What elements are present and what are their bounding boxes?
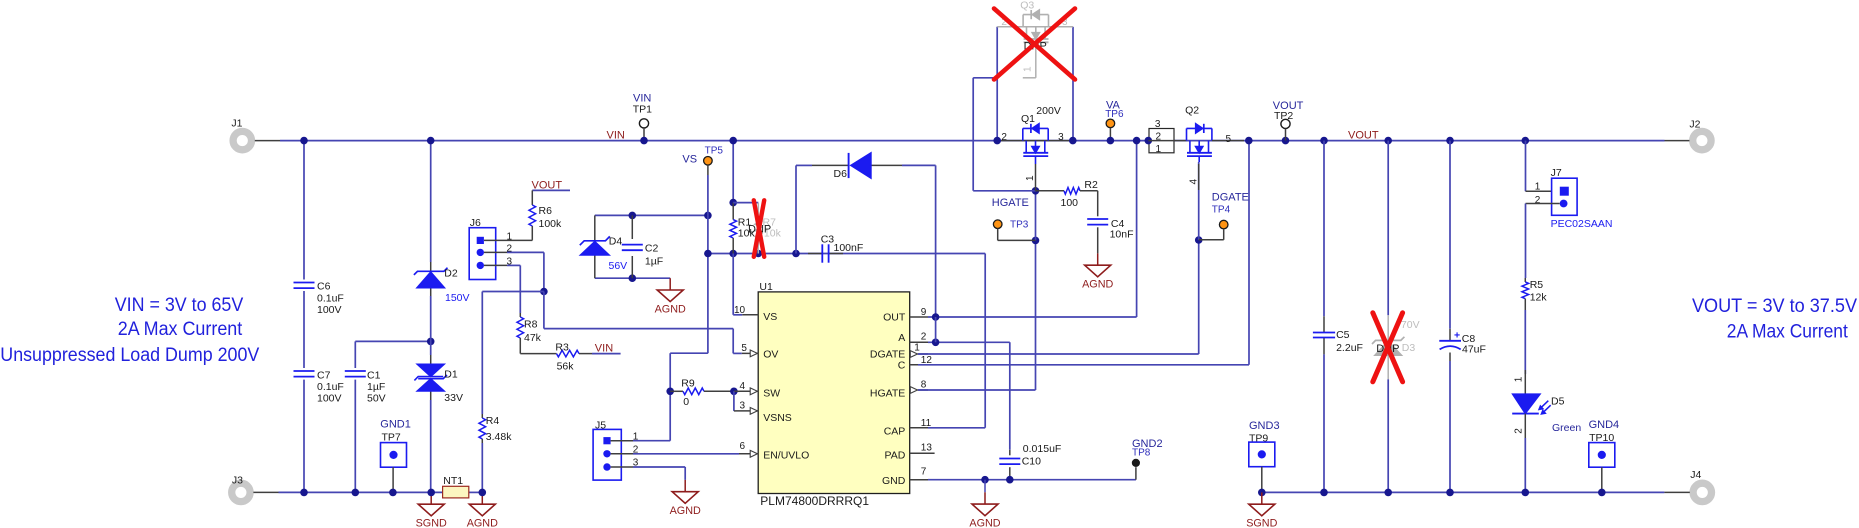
test point TP3 [992, 197, 1036, 240]
svg-text:J1: J1 [231, 118, 242, 130]
connector J2 [1665, 119, 1712, 150]
U1 pin 3 VSNS stub [736, 400, 758, 414]
svg-text:PEC02SAAN: PEC02SAAN [1551, 218, 1613, 230]
capacitor C7 [294, 369, 344, 404]
U1 pin 6 EN/UVLO stub [739, 441, 758, 457]
svg-text:1: 1 [914, 343, 920, 354]
U1 pin 5 OV stub [741, 343, 758, 357]
capacitor C10 [999, 443, 1061, 480]
svg-text:2: 2 [921, 332, 927, 343]
wire C net [918, 141, 1249, 365]
svg-text:13: 13 [921, 442, 933, 453]
ground AGND bottom-left [467, 492, 498, 528]
svg-text:SW: SW [763, 387, 780, 399]
resistor R7 DNP [755, 203, 782, 254]
svg-text:4: 4 [740, 381, 746, 392]
capacitor C6 [294, 281, 344, 316]
wire D6 left leg [795, 165, 797, 253]
wire R1 top from rail [729, 141, 737, 207]
svg-text:100V: 100V [317, 393, 342, 405]
svg-text:4: 4 [1189, 179, 1200, 185]
annotation VOUT spec line 2 [1727, 321, 1849, 342]
wire bus to VS pin [733, 254, 742, 315]
svg-text:GND1: GND1 [380, 418, 411, 430]
junction dots VOUT rail [1245, 137, 1529, 145]
svg-text:100nF: 100nF [834, 242, 864, 254]
resistor R6 [529, 190, 562, 240]
svg-text:A: A [898, 332, 905, 344]
wire VOUT to J7 pin1 [1526, 141, 1561, 192]
svg-text:R2: R2 [1084, 179, 1098, 191]
wire CAP net riser [928, 254, 985, 428]
transistor Q2 [1185, 105, 1244, 162]
svg-text:AGND: AGND [655, 303, 686, 315]
svg-text:EN/UVLO: EN/UVLO [763, 449, 809, 461]
test point TP7 GND1 [380, 418, 411, 492]
svg-text:7: 7 [921, 466, 927, 477]
connector J6 [469, 217, 512, 279]
label DNP Q3 [1024, 40, 1047, 52]
svg-text:R5: R5 [1530, 279, 1544, 291]
U1 pin 7 GND stub [910, 466, 928, 479]
capacitor C5 [1313, 316, 1363, 354]
svg-text:0.1uF: 0.1uF [317, 381, 344, 393]
diode D6 [796, 153, 936, 180]
wire D2-D1 column [430, 141, 432, 493]
capacitor C2 [622, 215, 663, 278]
red X over R7 [754, 200, 764, 256]
svg-text:3.48k: 3.48k [486, 431, 512, 443]
svg-text:NT1: NT1 [443, 475, 463, 487]
wire GND net [928, 467, 1136, 483]
svg-text:47uF: 47uF [1462, 344, 1486, 356]
svg-text:OV: OV [763, 348, 778, 360]
annotation VIN spec line 2 [118, 319, 243, 340]
svg-text:2A Max Current: 2A Max Current [1727, 321, 1849, 342]
svg-text:D4: D4 [609, 236, 623, 248]
connector J4 [1664, 469, 1711, 502]
red X over Q3 [994, 9, 1075, 80]
svg-text:AGND: AGND [467, 518, 498, 528]
U1 pin 10 VS stub [734, 305, 758, 316]
svg-text:C10: C10 [1022, 456, 1041, 468]
net tie NT1 [443, 475, 469, 498]
svg-text:1: 1 [1535, 182, 1541, 193]
svg-text:2: 2 [1535, 195, 1541, 206]
wire VIN-VOUT top rail [280, 140, 1665, 142]
svg-text:100k: 100k [539, 218, 563, 230]
ground SGND under TP9 [1246, 492, 1277, 528]
red X over D3 [1373, 313, 1403, 382]
svg-text:100: 100 [1061, 197, 1079, 209]
wire DGATE net [918, 162, 1202, 354]
svg-text:C1: C1 [367, 369, 381, 381]
svg-text:12k: 12k [1530, 291, 1548, 303]
svg-text:150V: 150V [445, 292, 470, 304]
test point TP8 GND2 [1132, 438, 1163, 467]
ground AGND under U1 [969, 480, 1000, 528]
ground SGND bottom-left [416, 492, 447, 528]
wire J6 pin2 net [507, 252, 548, 295]
svg-text:C6: C6 [317, 281, 331, 293]
wire R5 to D5 [1514, 310, 1526, 382]
svg-text:VIN: VIN [595, 343, 613, 355]
svg-text:TP4: TP4 [1212, 205, 1231, 216]
connector J5 [593, 419, 639, 480]
op-amp U1 body [758, 281, 910, 508]
wire R9 to VSNS [734, 391, 736, 411]
svg-text:1: 1 [1156, 144, 1162, 155]
svg-text:VSNS: VSNS [763, 412, 792, 424]
svg-text:1µF: 1µF [645, 255, 663, 267]
annotation VIN spec line 1 [115, 295, 244, 316]
svg-text:SGND: SGND [416, 518, 447, 528]
svg-text:3: 3 [740, 400, 746, 411]
svg-text:200V: 200V [1036, 105, 1061, 117]
svg-text:Q1: Q1 [1021, 113, 1035, 125]
wire D4-C2 bottom [595, 274, 670, 282]
svg-text:50V: 50V [367, 393, 386, 405]
svg-text:11: 11 [921, 418, 932, 429]
wire J5 pin1 to R9 [633, 391, 670, 440]
test point TP10 GND4 [1589, 419, 1620, 492]
U1 pin 4 SW stub [740, 381, 759, 395]
svg-text:10: 10 [734, 305, 746, 316]
svg-text:5: 5 [1226, 134, 1232, 145]
svg-text:1µF: 1µF [367, 381, 385, 393]
wire D3 column [1387, 141, 1389, 493]
svg-text:3: 3 [1155, 119, 1161, 130]
wire bottom-right ground rail [1262, 491, 1665, 493]
svg-text:PAD: PAD [884, 449, 905, 461]
wire HGATE net [918, 187, 1039, 390]
wire A net to C10 [928, 317, 1010, 450]
svg-text:70V: 70V [1401, 319, 1420, 331]
svg-text:VOUT: VOUT [1348, 129, 1379, 141]
svg-text:C2: C2 [645, 243, 659, 255]
wire C5 column [1323, 141, 1325, 493]
wire OUT net [928, 141, 1137, 321]
svg-text:VIN = 3V to 65V: VIN = 3V to 65V [115, 295, 244, 316]
wire pin2 net to OV pin [544, 292, 742, 354]
wire pin2 net to R4 [482, 291, 544, 293]
svg-text:TP6: TP6 [1105, 109, 1124, 120]
svg-text:J4: J4 [1690, 469, 1701, 481]
svg-text:2A Max Current: 2A Max Current [118, 319, 243, 340]
svg-text:6: 6 [740, 441, 746, 452]
svg-text:J2: J2 [1689, 119, 1700, 131]
svg-text:TP3: TP3 [1010, 220, 1029, 231]
transistor Q3 DNP [997, 0, 1073, 78]
svg-text:AGND: AGND [969, 518, 1000, 528]
svg-text:D6: D6 [834, 168, 848, 180]
capacitor C8 [1439, 141, 1486, 493]
connector J3 [232, 475, 279, 502]
test point TP6 VA [1105, 100, 1124, 145]
svg-text:J3: J3 [232, 475, 243, 487]
U1 pin 13 PAD stub [910, 442, 935, 453]
label DNP R7 [748, 223, 771, 235]
svg-text:J7: J7 [1551, 167, 1562, 179]
wire HGATE to Q3 [973, 78, 1035, 191]
junction dots bottom-left [300, 489, 486, 497]
svg-text:J5: J5 [595, 419, 606, 431]
ground AGND under C2 [655, 278, 686, 315]
net label VIN [607, 130, 625, 142]
svg-text:GND: GND [882, 475, 906, 487]
zener D4 [580, 215, 627, 278]
svg-text:CAP: CAP [884, 426, 906, 438]
svg-text:D1: D1 [444, 368, 458, 380]
svg-text:J6: J6 [470, 217, 481, 229]
wire J5 pin2 EN/UVLO [633, 453, 739, 455]
svg-text:Q3: Q3 [1020, 0, 1034, 12]
svg-text:HGATE: HGATE [992, 197, 1029, 209]
svg-text:TP5: TP5 [705, 145, 724, 156]
svg-text:2: 2 [1001, 132, 1007, 143]
svg-text:0: 0 [683, 396, 689, 408]
wire J6 pin1 to R6 [507, 239, 532, 241]
wire VS to R9 [670, 353, 708, 391]
svg-text:TP1: TP1 [633, 104, 652, 116]
svg-text:R3: R3 [555, 341, 569, 353]
Q2 gate lead label 4 [1189, 164, 1200, 190]
svg-text:100V: 100V [317, 304, 342, 316]
wire J5 pin3 to AGND [633, 467, 685, 480]
svg-text:56V: 56V [609, 260, 628, 272]
svg-text:0.1uF: 0.1uF [317, 293, 344, 305]
svg-text:D5: D5 [1551, 395, 1565, 407]
connector J7 [1535, 167, 1613, 230]
svg-text:U1: U1 [759, 281, 773, 293]
svg-text:3: 3 [1058, 132, 1064, 143]
svg-text:10nF: 10nF [1110, 229, 1134, 241]
svg-text:2: 2 [1514, 428, 1525, 434]
svg-text:47k: 47k [524, 332, 542, 344]
capacitor C4 [1087, 218, 1133, 253]
svg-text:33V: 33V [444, 392, 463, 404]
test point TP5 VS [682, 145, 723, 165]
LED D5 [1512, 370, 1581, 492]
wire R1 to R7 [733, 202, 758, 204]
svg-text:PLM74800DRRRQ1: PLM74800DRRRQ1 [760, 494, 869, 508]
svg-text:D3: D3 [1402, 342, 1416, 354]
annotation VOUT spec line 1 [1692, 296, 1857, 317]
resistor R1 [730, 203, 756, 254]
svg-text:C5: C5 [1336, 329, 1350, 341]
svg-text:C: C [898, 359, 906, 371]
wire D6 right leg [935, 165, 937, 317]
wire Q3 left leg [996, 27, 998, 141]
svg-text:R4: R4 [486, 415, 500, 427]
junction dots top rail left [300, 137, 737, 145]
junction dots bottom-right [1320, 489, 1605, 497]
wire R4 riser [481, 292, 483, 493]
svg-text:1: 1 [1514, 376, 1525, 382]
svg-text:1: 1 [1023, 66, 1034, 72]
svg-text:5: 5 [741, 343, 747, 354]
svg-text:R6: R6 [539, 205, 553, 217]
U1 pin 2 A stub [910, 332, 928, 343]
resistor R8 [517, 313, 542, 354]
svg-text:Q2: Q2 [1185, 105, 1199, 117]
annotation VIN spec line 3 [0, 345, 259, 366]
resistor R5 [1522, 278, 1547, 310]
wire R9 to SW [734, 390, 740, 392]
svg-text:AGND: AGND [670, 505, 701, 517]
svg-text:VIN: VIN [607, 130, 625, 142]
junction dots Q1 [993, 137, 1076, 145]
svg-text:9: 9 [921, 307, 927, 318]
svg-text:Green: Green [1552, 422, 1581, 434]
test point TP9 GND3 [1249, 420, 1280, 496]
transistor Q1 [997, 105, 1073, 191]
svg-text:HGATE: HGATE [870, 387, 905, 399]
wire D4-C2 top [595, 212, 712, 220]
svg-text:GND3: GND3 [1249, 420, 1280, 432]
connector J1 [231, 118, 280, 150]
svg-text:SGND: SGND [1246, 518, 1277, 528]
svg-text:AGND: AGND [1082, 279, 1113, 291]
svg-text:+: + [1454, 330, 1460, 342]
U1 pin 1 DGATE stub [910, 343, 928, 358]
resistor R2 [1036, 179, 1098, 216]
diode D2 [414, 262, 470, 304]
svg-text:VOUT = 3V to 37.5V: VOUT = 3V to 37.5V [1692, 296, 1857, 317]
test point TP2 VOUT [1273, 100, 1304, 141]
wire TP5 vertical [707, 165, 709, 353]
U1 pin 12 C stub [910, 355, 933, 366]
net label VOUT at R6 [532, 180, 571, 192]
svg-text:1: 1 [1025, 175, 1036, 181]
svg-text:Unsuppressed Load Dump 200V: Unsuppressed Load Dump 200V [0, 345, 259, 366]
svg-text:OUT: OUT [883, 312, 906, 324]
svg-text:VS: VS [763, 311, 777, 323]
svg-text:R9: R9 [681, 377, 695, 389]
wire through pin box [1148, 140, 1186, 142]
U1 pin 9 OUT stub [910, 307, 928, 318]
svg-text:2.2uF: 2.2uF [1336, 342, 1363, 354]
wire C1 leads [355, 338, 434, 493]
svg-text:GND4: GND4 [1589, 419, 1620, 431]
U1 pin 8 HGATE stub [910, 379, 928, 393]
svg-text:R8: R8 [524, 319, 538, 331]
svg-text:0.015uF: 0.015uF [1023, 443, 1062, 455]
wire bottom-left ground rail [279, 491, 483, 493]
svg-text:TP8: TP8 [1132, 448, 1151, 459]
resistor R9 [666, 377, 737, 408]
U1 pin 11 CAP stub [910, 418, 932, 429]
test point TP1 VIN [633, 93, 652, 145]
wire C6-C7 column [303, 141, 305, 493]
svg-text:D2: D2 [444, 267, 458, 279]
net label VOUT [1348, 129, 1379, 141]
svg-text:56k: 56k [557, 361, 575, 373]
svg-text:DGATE: DGATE [1212, 191, 1249, 203]
label DNP D3 [1376, 343, 1399, 355]
junction dot OUT riser [1133, 137, 1141, 145]
diode D3 DNP [1372, 315, 1420, 379]
resistor R3 [520, 341, 620, 372]
svg-text:8: 8 [921, 379, 927, 390]
ground AGND under C4 [1082, 253, 1113, 290]
test point TP4 [1199, 191, 1249, 239]
pin box Q2 source [1145, 119, 1175, 155]
capacitor C3 [808, 233, 863, 262]
wire Q3 right leg [1072, 27, 1074, 141]
svg-text:C7: C7 [317, 369, 331, 381]
svg-text:C3: C3 [821, 233, 835, 245]
wire VS bus [704, 250, 985, 258]
ground AGND under J5 [670, 480, 701, 517]
resistor R4 [479, 414, 512, 443]
capacitor C1 [345, 369, 386, 404]
wire J7 pin2 to R5 [1526, 204, 1560, 279]
svg-text:VS: VS [682, 154, 697, 166]
wire J6 pin3 to R8 [507, 265, 520, 313]
svg-text:VOUT: VOUT [532, 180, 563, 192]
diode D1 TVS [414, 355, 463, 404]
